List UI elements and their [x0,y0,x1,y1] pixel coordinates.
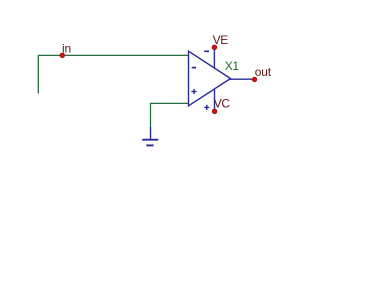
supply plus marker near VC pin [204,105,209,110]
op-amp inverting input marker - [192,67,196,69]
ground [142,127,158,145]
svg-text:X1: X1 [225,59,240,73]
svg-text:out: out [255,65,272,79]
label in [62,42,71,56]
wire: input net vertical open stub [37,55,39,94]
pin out (output pin stub) [230,78,255,80]
wire: non-inverting input net vertical to ground [150,103,152,128]
wire: input net horizontal from corner to op-amp inverting input [38,54,189,56]
svg-text:VE: VE [213,33,229,47]
node VC (red terminal dot) [212,109,217,114]
supply minus marker near VE pin [204,50,209,52]
label out [255,65,272,79]
label VC [214,96,231,110]
reference designator X1 [225,59,240,73]
pin VC (positive supply pin stub) [214,90,216,111]
node VE (red terminal dot) [212,45,217,50]
svg-text:VC: VC [214,96,231,110]
op-amp U: X1 triangle body [189,51,231,106]
label VE [213,33,229,47]
pin VE (negative supply pin stub) [213,47,215,68]
wire: non-inverting input net horizontal [150,102,189,104]
node in (red terminal dot) [60,53,65,58]
op-amp non-inverting input marker + [191,89,196,94]
node out (red terminal dot) [252,77,257,82]
svg-text:in: in [62,42,71,56]
